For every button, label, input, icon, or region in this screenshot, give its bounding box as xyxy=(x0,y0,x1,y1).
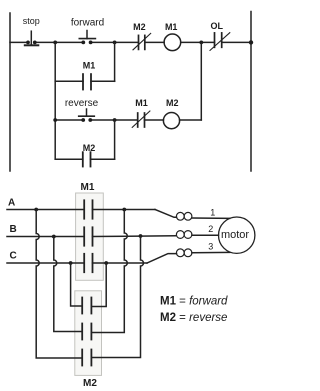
wire right vertical of M2 holding branch xyxy=(114,120,116,159)
wire line A xyxy=(7,209,84,211)
wire left branch vertical xyxy=(54,42,56,159)
motor M xyxy=(219,217,255,253)
contact M1 pole 1 xyxy=(84,200,92,218)
labels ladder xyxy=(23,16,224,153)
node A tap xyxy=(34,208,38,212)
overload heater 2 xyxy=(176,231,184,239)
pushbutton stop (NC) xyxy=(25,31,39,45)
wire vertical from B with hop over C xyxy=(54,237,82,332)
svg-text:M2: M2 xyxy=(133,22,146,32)
svg-text:B: B xyxy=(10,224,17,235)
wire M1 holding branch xyxy=(55,80,83,82)
wire right vertical of M1 holding branch xyxy=(114,42,116,81)
svg-text:M1: M1 xyxy=(135,98,148,108)
contact M1 pole 2 xyxy=(84,227,92,245)
wire main rung segments xyxy=(10,41,27,43)
contact M1 pole 3 xyxy=(84,254,92,272)
overload heater 1 xyxy=(176,212,184,220)
contact M2 pole 3 xyxy=(82,350,91,366)
svg-text:C: C xyxy=(10,250,17,261)
node J2 (right of forward) xyxy=(113,41,117,45)
svg-text:1: 1 xyxy=(210,207,215,217)
left rail xyxy=(9,13,11,171)
pushbutton forward (NO) xyxy=(79,31,95,45)
pushbutton reverse (NO) xyxy=(79,109,95,122)
svg-text:motor: motor xyxy=(221,229,249,241)
svg-text:forward: forward xyxy=(71,17,104,28)
node B tap xyxy=(52,235,56,239)
node J5 (left of reverse) xyxy=(53,118,57,122)
svg-text:M2: M2 xyxy=(83,143,96,153)
wire line B xyxy=(7,236,84,238)
overload heater 3 xyxy=(176,249,184,257)
wire vertical from A load with hops over B and C xyxy=(92,210,127,333)
node J6 (right of reverse) xyxy=(113,118,117,122)
svg-text:3: 3 xyxy=(208,242,213,252)
svg-text:M2: M2 xyxy=(166,98,179,108)
svg-text:stop: stop xyxy=(23,16,40,26)
contactor box M2 xyxy=(75,291,102,376)
node C tap xyxy=(69,261,73,265)
svg-text:A: A xyxy=(8,198,15,209)
wire vertical from A with hops over B and C xyxy=(36,210,82,359)
wire overload 2 to motor xyxy=(192,234,219,236)
wire vertical from C to M2 pole 1 left xyxy=(71,263,83,306)
contact M1 NC (rung 2) xyxy=(132,111,150,127)
wire vertical from B load with hop over C xyxy=(92,236,143,358)
contactor box M1 xyxy=(76,193,104,280)
svg-text:reverse: reverse xyxy=(65,98,99,109)
node C load tap xyxy=(104,261,108,265)
wire overload 3 to motor xyxy=(192,251,230,253)
node J4 (rung to right rail) xyxy=(249,40,253,44)
contact M2 NO (holding) xyxy=(83,152,91,166)
wire reverse rung segments xyxy=(55,119,82,121)
right rail xyxy=(250,12,252,172)
wire row 1 to overload 1 xyxy=(155,210,177,218)
contact M2 pole 1 xyxy=(82,298,91,314)
svg-text:M1: M1 xyxy=(165,22,178,32)
contact OL NC xyxy=(210,33,230,51)
node J3 (right of coil M1) xyxy=(199,41,203,45)
contact M1 NO (holding) xyxy=(83,74,91,89)
node J1 (left of forward) xyxy=(53,41,57,45)
svg-text:M1 = forward: M1 = forward xyxy=(160,296,228,308)
wire row 3 to overload 3 xyxy=(147,254,177,263)
node B load tap xyxy=(139,234,143,238)
wire coil M2 up to rung 1 xyxy=(200,42,202,120)
wire vertical from C load to M2 pole 1 right xyxy=(91,263,106,307)
wire line C xyxy=(7,262,84,264)
contact M2 pole 2 xyxy=(82,324,91,340)
svg-text:2: 2 xyxy=(208,224,213,234)
node A load tap xyxy=(122,208,126,212)
svg-text:M1: M1 xyxy=(81,182,95,193)
contact M2 NC (rung 1) xyxy=(133,33,151,49)
svg-text:M2: M2 xyxy=(83,378,97,389)
svg-text:M2 = reverse: M2 = reverse xyxy=(160,312,227,324)
coil M1 xyxy=(164,34,181,51)
coil M2 xyxy=(163,113,179,129)
svg-text:M1: M1 xyxy=(83,61,96,71)
labels power section xyxy=(8,182,249,389)
wire M2 holding branch xyxy=(55,158,83,160)
wire overload 1 to motor xyxy=(192,217,230,219)
svg-text:OL: OL xyxy=(211,21,224,31)
